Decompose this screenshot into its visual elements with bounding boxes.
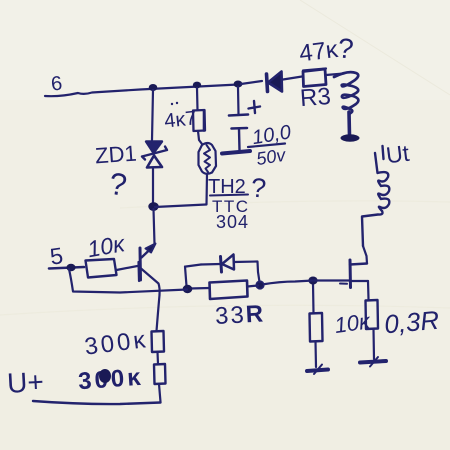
capacitor C1 plate 2 [232,127,248,130]
wire lower rail [69,269,187,293]
resistor 300k #1 [152,331,165,352]
diode D2 cathode bar [221,257,222,273]
resistor 4k7 [193,110,205,131]
wire D2 right and drop [234,262,260,283]
wire 4k7 to lamp [198,131,202,144]
svg-text:304: 304 [216,212,249,232]
gate tick [340,283,347,285]
resistor 0,3R box [366,300,379,329]
wire 10k to base [117,266,141,271]
junction dot A [149,84,158,91]
resistor 10k left box [86,259,117,278]
capacitor C1 end bar [222,151,250,154]
inductor L1 coil [334,72,358,114]
zener ZD1 [142,142,167,168]
wire 33R right lead [248,286,259,287]
svg-text:0,3R: 0,3R [383,305,440,340]
junction dot F (open) [256,281,264,289]
svg-text:6: 6 [50,73,63,96]
svg-text:4ĸ7: 4ĸ7 [163,107,197,132]
plus sign [249,101,261,113]
wire bottom rail [33,401,161,404]
ground under 0,3R [360,361,386,363]
Q1 emitter diagonal [141,269,160,296]
wire 33R left lead [190,287,210,290]
svg-text:ZD1: ZD1 [94,141,137,169]
junction dot C [234,81,243,88]
terminal blob under L1 [341,134,360,141]
capacitor C1 top lead [237,87,240,114]
underline TH2 [210,195,248,196]
wire zener top lead [152,90,153,140]
resistor R3 box [303,69,326,87]
wire lamp bottom lead [205,174,208,205]
svg-text:47ĸ: 47ĸ [298,36,341,68]
junction dot B [193,82,201,89]
resistor 33R box [210,281,248,300]
svg-text:300ĸ: 300ĸ [77,364,144,395]
wire top rail [45,85,238,97]
diode D2 triangle [222,255,234,270]
inductor L1 stem [347,112,351,136]
svg-text:?: ? [336,32,355,64]
junction dot D [148,202,158,211]
transistor Q1 base bar [139,248,143,280]
wire D2 left [201,263,220,266]
svg-text:U+: U+ [6,366,44,399]
capacitor C1 plate 1 [229,115,248,116]
wire 10k bottom lead [314,342,317,368]
wire node to gate [262,281,350,285]
thermistor TH2 lamp body [199,143,217,174]
svg-text:Ut: Ut [385,140,412,169]
inductor L2 (Ut coil) [375,153,389,211]
svg-text:?: ? [250,172,268,203]
junction dot G [183,285,193,293]
diode D1 triangle [268,72,282,92]
wire L2 bottom to transistor [362,211,383,246]
svg-text:33R: 33R [214,300,265,330]
riser to D2 [185,265,201,287]
wire 0,3R bottom [372,329,375,359]
wire 10k top lead [312,283,315,313]
wire zener bottom lead [152,169,154,203]
Q2 bottom arm [351,280,368,282]
wire junction D to lamp bottom [155,205,206,208]
wire 4k7 top lead [196,88,199,110]
wire between 300k [156,352,159,364]
wire collector riser [154,209,155,244]
Q1 collector diagonal + arrow [142,248,153,258]
junction dot E [308,277,317,285]
wire emitter down to 300k [157,295,160,331]
ground under 10k [307,370,328,372]
diode D1 cathode bar [267,74,268,92]
Q2 top arm [350,264,367,265]
Q2 top lead [363,246,367,264]
Q2 channel bar [349,260,353,288]
thermistor zigzag [204,145,210,172]
svg-text:10ĸ: 10ĸ [333,308,373,338]
junction dot H [66,264,75,272]
underline 10,0 [248,144,285,148]
wire input 5 [49,267,84,269]
resistor 300k #2 [154,364,166,384]
wire 300k bottom [159,384,161,402]
capacitor C1 stem [238,129,241,150]
resistor 10k right box [310,313,323,342]
wire R3 to coil [326,74,344,76]
svg-text:R3: R3 [299,83,331,112]
wire D1 to R3 [283,77,302,80]
Q2 drain drop [367,281,370,299]
wire dot C to diode D1 [241,81,262,84]
